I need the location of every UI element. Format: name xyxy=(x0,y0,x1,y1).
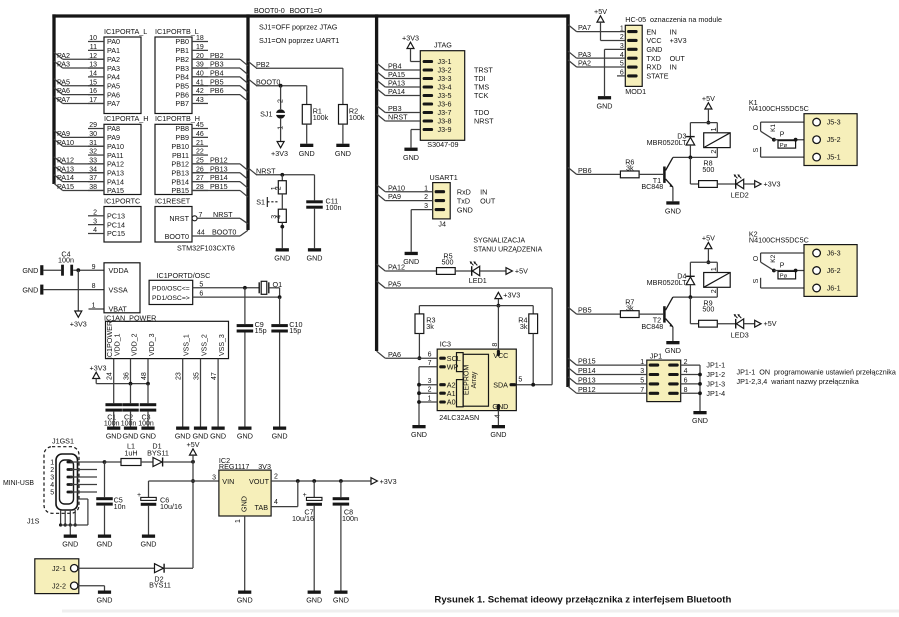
svg-text:23: 23 xyxy=(176,372,183,380)
svg-text:STATE: STATE xyxy=(646,72,668,81)
svg-text:500: 500 xyxy=(442,258,454,267)
svg-text:24LC32ASN: 24LC32ASN xyxy=(439,413,479,422)
svg-text:GND: GND xyxy=(97,596,113,605)
svg-text:J5-3: J5-3 xyxy=(827,118,841,127)
svg-text:BYS11: BYS11 xyxy=(147,448,169,457)
svg-text:VBAT: VBAT xyxy=(109,305,128,314)
svg-text:NRST: NRST xyxy=(169,214,189,223)
svg-text:10u/16: 10u/16 xyxy=(292,514,314,523)
svg-text:PA14: PA14 xyxy=(388,87,405,96)
svg-text:BYS11: BYS11 xyxy=(149,581,171,590)
svg-text:VSS_3: VSS_3 xyxy=(219,334,226,356)
svg-text:32: 32 xyxy=(89,149,97,156)
svg-text:IN: IN xyxy=(670,63,677,72)
svg-text:PB14: PB14 xyxy=(171,177,189,186)
svg-text:IC1PORTB_L: IC1PORTB_L xyxy=(155,27,199,36)
svg-text:SDA: SDA xyxy=(493,381,508,390)
svg-text:47: 47 xyxy=(211,372,218,380)
svg-text:500: 500 xyxy=(702,165,714,174)
svg-text:4: 4 xyxy=(274,499,278,506)
svg-text:PA13: PA13 xyxy=(57,164,74,173)
svg-text:VDDA: VDDA xyxy=(109,266,129,275)
svg-text:PA10: PA10 xyxy=(388,183,405,192)
svg-text:J6-2: J6-2 xyxy=(827,266,841,275)
svg-text:IN: IN xyxy=(670,27,677,36)
svg-text:VCC: VCC xyxy=(646,36,661,45)
svg-text:+: + xyxy=(137,492,141,499)
svg-text:PA6: PA6 xyxy=(107,90,120,99)
svg-text:JP1-2: JP1-2 xyxy=(706,370,725,379)
svg-text:HC-05 oznaczenia na module: HC-05 oznaczenia na module xyxy=(625,15,722,24)
svg-text:Pø: Pø xyxy=(780,143,788,149)
svg-text:S1: S1 xyxy=(256,197,265,206)
svg-text:J5-2: J5-2 xyxy=(827,135,841,144)
svg-text:BOOT1=0: BOOT1=0 xyxy=(290,6,323,15)
svg-text:MINI-USB: MINI-USB xyxy=(3,480,34,487)
svg-text:PA2: PA2 xyxy=(57,51,70,60)
svg-text:A0: A0 xyxy=(447,398,456,407)
svg-text:5: 5 xyxy=(199,281,203,288)
svg-text:TXD: TXD xyxy=(646,54,660,63)
svg-text:GND: GND xyxy=(274,253,290,262)
svg-text:1uH: 1uH xyxy=(124,448,137,457)
svg-text:Rysunek 1. Schemat ideowy prze: Rysunek 1. Schemat ideowy przełącznika z… xyxy=(434,594,731,605)
svg-text:TAB: TAB xyxy=(255,503,269,512)
svg-text:36: 36 xyxy=(123,372,130,380)
svg-text:1: 1 xyxy=(92,303,96,310)
svg-text:BC848: BC848 xyxy=(641,322,663,331)
svg-text:1: 1 xyxy=(711,127,718,131)
svg-text:GND: GND xyxy=(665,207,681,216)
svg-text:PB11: PB11 xyxy=(172,151,189,160)
svg-text:IC1PORTB_H: IC1PORTB_H xyxy=(155,114,200,123)
svg-text:GND: GND xyxy=(106,432,122,441)
svg-text:PA4: PA4 xyxy=(107,73,120,82)
svg-text:100n: 100n xyxy=(58,256,74,265)
svg-text:PA12: PA12 xyxy=(107,160,124,169)
svg-text:PA14: PA14 xyxy=(107,177,124,186)
svg-text:+5V: +5V xyxy=(702,94,715,103)
svg-text:GND: GND xyxy=(299,149,315,158)
svg-text:PA5: PA5 xyxy=(57,77,70,86)
svg-text:JTAG: JTAG xyxy=(434,41,452,50)
svg-text:PD1/OSC=>: PD1/OSC=> xyxy=(152,295,190,302)
svg-text:15p: 15p xyxy=(255,326,267,335)
svg-text:PA10: PA10 xyxy=(107,142,124,151)
svg-text:29: 29 xyxy=(89,122,97,129)
svg-text:+5V: +5V xyxy=(187,440,200,449)
svg-text:K1: K1 xyxy=(770,124,777,132)
svg-text:18: 18 xyxy=(196,35,204,42)
svg-text:GND: GND xyxy=(97,540,113,549)
svg-text:+5V: +5V xyxy=(702,234,715,243)
svg-text:2: 2 xyxy=(278,99,285,103)
svg-text:NRST: NRST xyxy=(388,113,408,122)
svg-text:PA3: PA3 xyxy=(578,50,591,59)
svg-text:VSS_2: VSS_2 xyxy=(202,334,209,356)
svg-text:IN: IN xyxy=(480,187,487,196)
svg-text:PA10: PA10 xyxy=(57,138,74,147)
svg-text:+3V3: +3V3 xyxy=(90,363,107,372)
svg-text:PB10: PB10 xyxy=(171,142,189,151)
svg-text:24: 24 xyxy=(107,372,114,380)
svg-text:PB7: PB7 xyxy=(175,99,189,108)
svg-text:GND: GND xyxy=(692,416,708,425)
svg-text:PA0: PA0 xyxy=(107,37,120,46)
svg-text:PA15: PA15 xyxy=(107,186,124,195)
svg-text:GND: GND xyxy=(457,205,473,214)
svg-text:43: 43 xyxy=(196,97,204,104)
svg-text:JP1: JP1 xyxy=(650,351,662,360)
svg-text:SJ1: SJ1 xyxy=(260,109,272,118)
svg-text:21: 21 xyxy=(196,140,204,147)
svg-text:VDD_3: VDD_3 xyxy=(149,333,156,356)
svg-text:44: 44 xyxy=(197,230,205,237)
svg-text:8: 8 xyxy=(92,283,96,290)
svg-text:10: 10 xyxy=(89,35,97,42)
svg-text:7: 7 xyxy=(199,212,203,219)
svg-text:PB1: PB1 xyxy=(175,46,189,55)
svg-text:JP1-1 ON programowanie ustaw: JP1-1 ON programowanie ustawień przełącz… xyxy=(737,368,896,377)
svg-text:+3V3: +3V3 xyxy=(402,33,419,42)
svg-text:GND: GND xyxy=(665,346,681,355)
svg-text:IC1PORTD/OSC: IC1PORTD/OSC xyxy=(157,271,211,280)
svg-text:GND: GND xyxy=(62,540,78,549)
svg-text:PB2: PB2 xyxy=(175,55,189,64)
svg-text:GND: GND xyxy=(306,596,322,605)
svg-text:LED2: LED2 xyxy=(731,191,749,200)
svg-text:MBR0520LT: MBR0520LT xyxy=(647,138,687,147)
svg-text:S3047-09: S3047-09 xyxy=(427,140,458,149)
svg-text:PC14: PC14 xyxy=(107,220,125,229)
svg-text:LED1: LED1 xyxy=(469,276,487,285)
svg-text:J3-9: J3-9 xyxy=(438,125,452,134)
svg-text:+: + xyxy=(303,492,307,499)
svg-text:GND: GND xyxy=(272,432,288,441)
svg-text:GND: GND xyxy=(403,257,419,266)
svg-text:PB2: PB2 xyxy=(210,51,224,60)
svg-text:4: 4 xyxy=(50,482,54,489)
svg-text:JP1-1: JP1-1 xyxy=(706,361,725,370)
svg-text:1: 1 xyxy=(235,519,242,523)
svg-text:JP1-2,3,4 wariant nazwy przeł: JP1-2,3,4 wariant nazwy przełącznika xyxy=(737,377,859,386)
svg-text:14: 14 xyxy=(89,71,97,78)
svg-text:PA12: PA12 xyxy=(388,263,405,272)
svg-text:GND: GND xyxy=(140,432,156,441)
svg-text:PB12: PB12 xyxy=(578,385,596,394)
svg-text:2: 2 xyxy=(275,186,282,190)
svg-text:PA14: PA14 xyxy=(57,173,74,182)
svg-text:BOOT0-0: BOOT0-0 xyxy=(254,6,285,15)
svg-text:GND: GND xyxy=(403,153,419,162)
svg-text:PB15: PB15 xyxy=(171,186,189,195)
svg-text:11: 11 xyxy=(90,44,97,51)
svg-text:6: 6 xyxy=(428,352,432,359)
svg-text:15p: 15p xyxy=(289,326,301,335)
svg-text:5: 5 xyxy=(50,489,54,496)
svg-text:PA5: PA5 xyxy=(107,81,120,90)
svg-text:PA8: PA8 xyxy=(107,124,120,133)
svg-text:PA2: PA2 xyxy=(578,59,591,68)
svg-text:J2-1: J2-1 xyxy=(52,564,66,573)
svg-text:46: 46 xyxy=(196,131,204,138)
svg-text:N4100CHS5DC5C: N4100CHS5DC5C xyxy=(749,104,809,113)
svg-text:GND: GND xyxy=(123,432,139,441)
svg-text:GND: GND xyxy=(237,596,253,605)
svg-text:BOOT0: BOOT0 xyxy=(212,228,236,237)
svg-text:2: 2 xyxy=(274,473,278,480)
svg-text:PC13: PC13 xyxy=(107,212,125,221)
svg-text:PA1: PA1 xyxy=(107,46,120,55)
svg-text:GND: GND xyxy=(411,430,427,439)
svg-text:2: 2 xyxy=(50,467,54,474)
svg-text:45: 45 xyxy=(196,122,204,129)
svg-text:VSSA: VSSA xyxy=(109,285,128,294)
svg-text:NRST: NRST xyxy=(213,210,233,219)
svg-text:PA6: PA6 xyxy=(57,86,70,95)
svg-text:3: 3 xyxy=(50,474,54,481)
svg-text:9: 9 xyxy=(92,264,96,271)
svg-text:SJ1=ON poprzez UART1: SJ1=ON poprzez UART1 xyxy=(259,36,339,45)
svg-text:22: 22 xyxy=(196,149,204,156)
svg-text:J1S: J1S xyxy=(27,516,40,525)
svg-text:O: O xyxy=(753,255,760,261)
svg-text:2: 2 xyxy=(93,209,97,216)
svg-text:+3V3: +3V3 xyxy=(764,180,781,189)
svg-text:TCK: TCK xyxy=(474,91,489,100)
svg-text:PB14: PB14 xyxy=(578,366,596,375)
svg-text:JP1-4: JP1-4 xyxy=(706,389,725,398)
svg-text:PA13: PA13 xyxy=(107,168,124,177)
svg-text:GND: GND xyxy=(646,45,662,54)
svg-text:PB13: PB13 xyxy=(171,168,189,177)
svg-text:PB15: PB15 xyxy=(210,182,228,191)
svg-text:GND: GND xyxy=(240,496,249,512)
svg-text:500: 500 xyxy=(702,305,714,314)
svg-text:Pø: Pø xyxy=(780,274,788,280)
svg-text:PA3: PA3 xyxy=(57,60,70,69)
svg-text:GND: GND xyxy=(22,266,38,275)
svg-text:STANU URZĄDZENIA: STANU URZĄDZENIA xyxy=(473,247,542,254)
svg-text:100n: 100n xyxy=(326,203,342,212)
svg-text:3k: 3k xyxy=(426,322,434,331)
svg-text:PA9: PA9 xyxy=(388,192,401,201)
svg-text:NRST: NRST xyxy=(256,166,276,175)
svg-text:PA9: PA9 xyxy=(57,129,70,138)
svg-text:GND: GND xyxy=(492,402,508,411)
svg-text:PA7: PA7 xyxy=(57,95,70,104)
svg-text:PB6: PB6 xyxy=(578,166,592,175)
svg-text:1: 1 xyxy=(50,459,54,466)
svg-text:5: 5 xyxy=(518,377,522,384)
svg-text:WP: WP xyxy=(447,363,459,372)
svg-text:VCC: VCC xyxy=(493,351,508,360)
svg-text:+3V3: +3V3 xyxy=(70,320,87,329)
svg-text:A1: A1 xyxy=(447,389,456,398)
svg-text:J6-3: J6-3 xyxy=(827,249,841,258)
svg-text:IC1PORTA_H: IC1PORTA_H xyxy=(104,114,148,123)
svg-text:STM32F103CXT6: STM32F103CXT6 xyxy=(177,244,235,253)
svg-text:2: 2 xyxy=(711,150,718,154)
svg-text:J1GS1: J1GS1 xyxy=(52,437,74,446)
svg-text:RXD: RXD xyxy=(646,63,661,72)
svg-text:PA11: PA11 xyxy=(107,151,124,160)
svg-text:GND: GND xyxy=(22,285,38,294)
svg-text:3k: 3k xyxy=(626,303,634,312)
svg-text:PA2: PA2 xyxy=(107,55,120,64)
svg-text:GND: GND xyxy=(237,432,253,441)
svg-text:NRST: NRST xyxy=(474,117,494,126)
svg-text:S: S xyxy=(753,278,760,283)
svg-text:PB13: PB13 xyxy=(578,376,596,385)
svg-text:JP1-3: JP1-3 xyxy=(706,380,725,389)
svg-text:USART1: USART1 xyxy=(430,173,458,182)
svg-text:OUT: OUT xyxy=(480,196,496,205)
svg-text:3V3: 3V3 xyxy=(258,462,271,471)
svg-text:TxD: TxD xyxy=(457,196,470,205)
svg-text:3k: 3k xyxy=(520,322,528,331)
svg-text:PB0: PB0 xyxy=(175,37,189,46)
svg-text:SYGNALIZACJA: SYGNALIZACJA xyxy=(473,237,525,244)
svg-text:GND: GND xyxy=(597,101,613,110)
svg-text:VDD_1: VDD_1 xyxy=(115,333,122,356)
svg-text:LED3: LED3 xyxy=(731,330,749,339)
svg-text:PC15: PC15 xyxy=(107,229,125,238)
svg-text:P: P xyxy=(780,132,785,139)
svg-text:K2: K2 xyxy=(770,254,777,262)
svg-text:2: 2 xyxy=(711,289,718,293)
svg-text:S: S xyxy=(753,148,760,153)
svg-text:PB5: PB5 xyxy=(175,81,189,90)
svg-text:IC1RESET: IC1RESET xyxy=(155,196,191,205)
svg-text:PA7: PA7 xyxy=(107,99,120,108)
svg-text:Array: Array xyxy=(471,371,478,388)
svg-text:3: 3 xyxy=(93,218,97,225)
svg-text:3k: 3k xyxy=(626,163,634,172)
svg-text:J5-1: J5-1 xyxy=(827,153,841,162)
svg-text:PA15: PA15 xyxy=(57,182,74,191)
svg-text:GND: GND xyxy=(490,430,506,439)
svg-text:PB14: PB14 xyxy=(210,173,228,182)
svg-text:REG1117: REG1117 xyxy=(219,462,250,471)
svg-text:BOOT0: BOOT0 xyxy=(165,232,189,241)
svg-text:BC848: BC848 xyxy=(641,182,663,191)
svg-text:VDD_2: VDD_2 xyxy=(132,333,139,356)
svg-text:PB12: PB12 xyxy=(210,156,228,165)
svg-text:J4: J4 xyxy=(438,219,446,228)
svg-text:PB9: PB9 xyxy=(175,133,189,142)
svg-text:GND: GND xyxy=(333,596,349,605)
svg-text:P: P xyxy=(780,262,785,269)
svg-text:PB3: PB3 xyxy=(210,60,224,69)
svg-text:GND: GND xyxy=(141,540,157,549)
svg-text:+3V3: +3V3 xyxy=(670,36,687,45)
svg-text:2: 2 xyxy=(428,387,432,394)
svg-text:VOUT: VOUT xyxy=(249,477,270,486)
svg-text:35: 35 xyxy=(193,372,200,380)
svg-text:PB3: PB3 xyxy=(175,64,189,73)
svg-text:PA5: PA5 xyxy=(388,280,401,289)
svg-text:48: 48 xyxy=(141,372,148,380)
svg-text:10u/16: 10u/16 xyxy=(160,502,182,511)
svg-text:N4100CHS5DC5C: N4100CHS5DC5C xyxy=(749,235,809,244)
svg-text:PB5: PB5 xyxy=(210,77,224,86)
svg-text:PB6: PB6 xyxy=(210,86,224,95)
svg-text:PB4: PB4 xyxy=(175,73,189,82)
svg-text:PB15: PB15 xyxy=(578,357,596,366)
svg-text:PA7: PA7 xyxy=(578,23,591,32)
svg-text:J6-1: J6-1 xyxy=(827,284,841,293)
svg-text:1: 1 xyxy=(711,267,718,271)
svg-text:+5V: +5V xyxy=(515,266,528,275)
svg-text:PA3: PA3 xyxy=(107,64,120,73)
svg-text:MOD1: MOD1 xyxy=(625,87,646,96)
svg-text:MBR0520LT: MBR0520LT xyxy=(647,278,687,287)
svg-text:RxD: RxD xyxy=(457,187,471,196)
svg-text:PA9: PA9 xyxy=(107,133,120,142)
svg-text:PB4: PB4 xyxy=(210,69,224,78)
svg-text:IC3: IC3 xyxy=(440,340,451,349)
svg-text:6: 6 xyxy=(199,291,203,298)
svg-text:IC1PORTC: IC1PORTC xyxy=(104,196,140,205)
svg-text:PB6: PB6 xyxy=(175,90,189,99)
svg-text:GND: GND xyxy=(307,253,323,262)
svg-text:+3V3: +3V3 xyxy=(503,291,520,300)
svg-text:19: 19 xyxy=(196,44,204,51)
svg-text:IC1POWER: IC1POWER xyxy=(105,321,114,359)
svg-text:PD0/OSC<=: PD0/OSC<= xyxy=(152,286,190,293)
svg-text:PA12: PA12 xyxy=(57,156,74,165)
svg-text:PB13: PB13 xyxy=(210,164,228,173)
svg-text:PB12: PB12 xyxy=(171,160,189,169)
svg-text:PB5: PB5 xyxy=(578,306,592,315)
svg-text:+3V3: +3V3 xyxy=(271,149,288,158)
svg-text:1: 1 xyxy=(428,395,432,402)
svg-text:3: 3 xyxy=(212,475,216,482)
svg-text:SJ1=OFF poprzez JTAG: SJ1=OFF poprzez JTAG xyxy=(259,23,338,32)
svg-text:100k: 100k xyxy=(349,113,365,122)
svg-text:BOOT0: BOOT0 xyxy=(256,77,280,86)
svg-text:PB2: PB2 xyxy=(256,60,270,69)
svg-text:GND: GND xyxy=(210,432,226,441)
svg-text:3: 3 xyxy=(428,378,432,385)
svg-text:J2-2: J2-2 xyxy=(52,581,66,590)
svg-text:OUT: OUT xyxy=(670,54,686,63)
svg-text:EN: EN xyxy=(646,27,656,36)
svg-text:100n: 100n xyxy=(342,514,358,523)
svg-text:PB8: PB8 xyxy=(175,124,189,133)
svg-text:100k: 100k xyxy=(313,113,329,122)
svg-text:O: O xyxy=(753,124,760,130)
svg-text:10n: 10n xyxy=(114,502,126,511)
svg-text:4: 4 xyxy=(93,227,97,234)
svg-text:VIN: VIN xyxy=(222,477,234,486)
svg-text:IC1PORTA_L: IC1PORTA_L xyxy=(104,27,147,36)
svg-text:4: 4 xyxy=(275,215,282,219)
svg-text:EEPROM: EEPROM xyxy=(464,365,471,396)
svg-text:VSS_1: VSS_1 xyxy=(184,334,191,356)
svg-text:+3V3: +3V3 xyxy=(380,477,397,486)
svg-text:GND: GND xyxy=(335,149,351,158)
svg-text:7: 7 xyxy=(428,360,432,367)
svg-text:PA6: PA6 xyxy=(388,350,401,359)
svg-text:+5V: +5V xyxy=(764,319,777,328)
svg-text:+5V: +5V xyxy=(594,7,607,16)
